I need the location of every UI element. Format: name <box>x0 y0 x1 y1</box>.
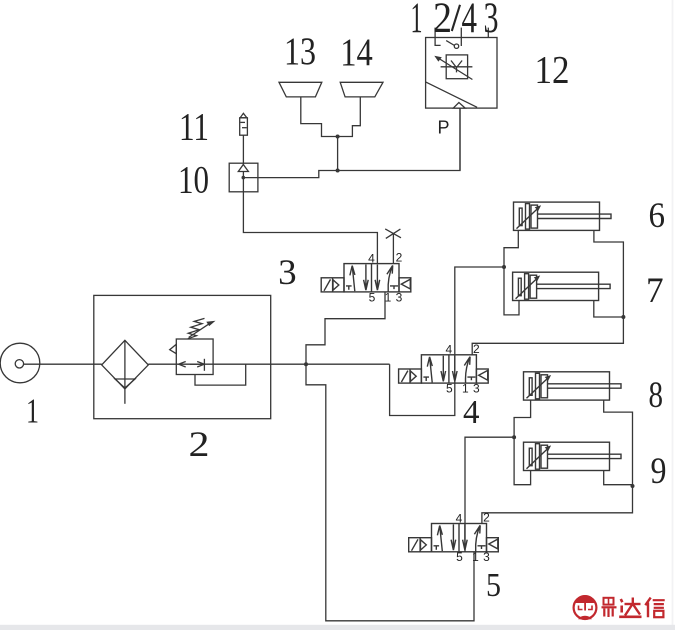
watermark char da <box>619 598 641 617</box>
filter F diamond <box>102 340 149 389</box>
wire valve 5 port 2 <box>482 486 633 524</box>
valve 5 <box>409 524 499 552</box>
wire supply right step <box>390 267 504 416</box>
FRL unit box 2 <box>94 295 271 418</box>
wire supply down to valve 5 <box>306 364 474 621</box>
throttle arrow <box>437 57 473 80</box>
node cylinder 6 7 rod junction <box>621 315 625 319</box>
switch lever <box>435 38 441 46</box>
wire nozzle junction down <box>337 137 339 171</box>
wire valve 4 port 2 <box>472 317 623 355</box>
water separator <box>115 379 135 388</box>
wire cylinder 6 cap port <box>504 230 518 267</box>
wire cylinder 8 cap port <box>514 400 531 437</box>
air source compressor 1 <box>0 343 40 383</box>
port stub 2/4 <box>460 28 462 46</box>
svg-text:4: 4 <box>462 0 478 42</box>
cylinder 9 <box>524 442 622 470</box>
silencer 11 <box>240 118 248 135</box>
wire silencer to valve 10 <box>242 135 244 163</box>
svg-text:6: 6 <box>649 195 666 235</box>
svg-text:2: 2 <box>189 424 210 464</box>
svg-text:1: 1 <box>26 391 39 430</box>
wire cylinder 7 rod port <box>594 301 624 318</box>
node pilot line junction <box>336 169 340 173</box>
wire cylinder 9 rod port <box>604 471 633 485</box>
timer valve 12 box <box>426 38 497 109</box>
regulator spring <box>188 318 205 338</box>
node main junction <box>304 362 308 366</box>
relief triangle <box>170 344 177 353</box>
svg-text:1: 1 <box>411 0 423 42</box>
check triangle <box>453 103 465 109</box>
cylinder 6 <box>514 202 612 230</box>
wire valve 10 to pilot line <box>243 108 460 178</box>
valve 3 <box>321 264 411 292</box>
wire valve 10 down to valve 3 port 4 <box>243 192 377 264</box>
cylinder 7 <box>513 272 611 300</box>
wire cylinder 6 rod port <box>594 230 624 317</box>
regulator feedback line <box>195 364 246 385</box>
wire cylinder 7 cap port <box>504 267 519 315</box>
svg-text:9: 9 <box>651 451 667 492</box>
wire nozzle 13 stem <box>301 97 338 137</box>
X plug on valve 3 port 2 <box>385 229 401 239</box>
port stub 1 <box>434 28 436 38</box>
watermark logo hooks <box>579 606 583 610</box>
wire cylinder 8 rod port <box>604 400 633 486</box>
wire cylinder 9 cap port <box>514 437 531 485</box>
node nozzle junction <box>336 135 340 139</box>
watermark char xin <box>645 598 664 618</box>
bottom gray band <box>0 625 675 630</box>
watermark logo stem <box>584 601 586 611</box>
svg-text:5: 5 <box>486 567 501 604</box>
svg-text:14: 14 <box>340 31 373 74</box>
svg-text:P: P <box>438 118 450 138</box>
node valve 10 tap <box>242 176 246 180</box>
wire main supply line <box>24 363 390 365</box>
svg-text:8: 8 <box>649 375 664 416</box>
label slash of valve 12 <box>452 5 460 31</box>
bottom diagonal <box>426 82 478 107</box>
svg-text:2: 2 <box>433 0 452 42</box>
svg-text:13: 13 <box>284 30 316 73</box>
wire supply to valve 3 <box>306 292 385 364</box>
drain stub <box>124 389 126 404</box>
node cylinder 6 7 cap junction <box>502 265 506 269</box>
watermark logo dome <box>574 595 596 603</box>
nozzle 14 <box>340 82 383 97</box>
wire valve 5 port 4 <box>465 437 514 551</box>
check valve 10 <box>229 163 258 192</box>
wire nozzle 14 stem <box>338 97 361 137</box>
valve 4 <box>399 355 489 383</box>
cylinder 8 <box>524 372 622 400</box>
node cylinder 8 9 rod junction <box>631 484 635 488</box>
wire valve 3 port 2 <box>392 233 394 263</box>
svg-text:7: 7 <box>646 270 664 310</box>
svg-text:4: 4 <box>463 394 480 431</box>
pressure regulator <box>176 339 213 375</box>
port stub 3 <box>487 28 489 38</box>
svg-text:12: 12 <box>535 48 570 91</box>
throttle square <box>446 55 467 79</box>
svg-text:11: 11 <box>179 106 209 149</box>
node cylinder 8 9 cap junction <box>512 435 516 439</box>
wire P supply drop <box>459 108 461 170</box>
watermark logo circle <box>574 596 597 619</box>
watermark char ding <box>602 598 617 617</box>
watermark logo base <box>578 616 592 620</box>
svg-text:3: 3 <box>278 252 297 292</box>
svg-text:3: 3 <box>484 0 499 42</box>
nozzle 13 <box>279 82 322 97</box>
right scan band <box>672 0 674 630</box>
svg-text:10: 10 <box>178 158 209 201</box>
